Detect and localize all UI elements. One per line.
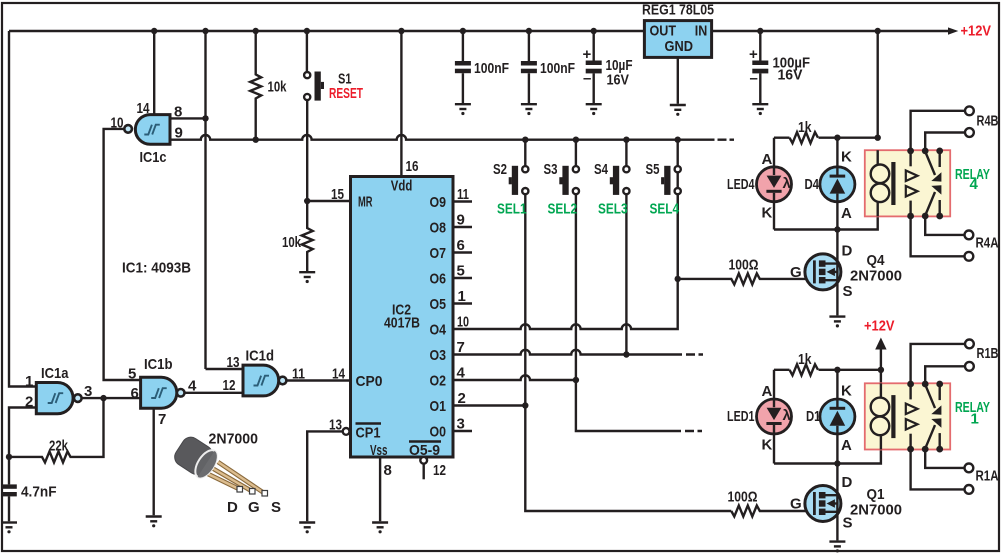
nand gate IC1b xyxy=(141,377,177,408)
svg-text:O4: O4 xyxy=(430,322,447,339)
wire relay1 COM to R1A top xyxy=(925,449,964,468)
wire O1 to S2 line xyxy=(453,404,525,406)
svg-text:Vss: Vss xyxy=(370,442,388,459)
svg-text:K: K xyxy=(841,149,852,166)
wire Vdd pin 16 xyxy=(400,31,402,177)
svg-text:2N7000: 2N7000 xyxy=(850,502,902,519)
svg-text:R4B: R4B xyxy=(977,113,999,130)
svg-text:D: D xyxy=(842,243,853,260)
wire LED1/D1 cathode rail to coil bottom xyxy=(774,436,881,464)
svg-text:K: K xyxy=(762,205,773,222)
node rail-C1 xyxy=(460,28,466,34)
pin stub O5 xyxy=(453,302,472,304)
svg-text:G: G xyxy=(790,264,802,281)
svg-text:S: S xyxy=(843,283,853,300)
svg-text:14: 14 xyxy=(332,366,346,383)
svg-text:IC1d: IC1d xyxy=(246,348,275,365)
node O4 line 100R branch xyxy=(675,276,681,282)
svg-text:Vdd: Vdd xyxy=(391,178,413,195)
terminal circle R1A-2 xyxy=(965,485,974,494)
wire IC1b pin 4 to IC1d pin 12 xyxy=(185,392,244,394)
node D1 top xyxy=(834,367,840,373)
node rail-Vdd xyxy=(398,28,404,34)
transistor package 2N7000 drawing xyxy=(171,434,267,496)
ground Q1 source xyxy=(829,542,845,553)
diode D1 xyxy=(820,399,855,434)
node O2-S3 xyxy=(573,377,579,383)
wire relay4 NO to R4B top xyxy=(911,111,965,151)
svg-text:SEL3: SEL3 xyxy=(598,201,628,218)
svg-text:12: 12 xyxy=(433,462,446,479)
wire O3 dashed continuation xyxy=(686,353,703,355)
relay RELAY4 coil xyxy=(877,150,879,165)
wire IC1c pin 14 xyxy=(153,31,155,115)
svg-text:SEL4: SEL4 xyxy=(650,201,680,218)
svg-text:CP0: CP0 xyxy=(356,373,383,390)
wire S4 vertical xyxy=(625,194,627,354)
svg-text:16V: 16V xyxy=(607,72,630,89)
+12V arrowhead relay1 xyxy=(875,338,886,350)
pin stub O7 xyxy=(453,251,472,253)
svg-text:7: 7 xyxy=(158,411,166,428)
wire pin8 vertical rail to IC1d pin13 xyxy=(206,31,244,369)
resistor 1k (relay4) xyxy=(790,132,819,143)
LED LED4 xyxy=(757,167,792,202)
svg-text:REG1 78L05: REG1 78L05 xyxy=(642,2,714,19)
LED LED1 xyxy=(757,399,792,434)
svg-text:A: A xyxy=(841,437,852,454)
node rail-IC1c pin14 xyxy=(151,28,157,34)
svg-text:5: 5 xyxy=(457,263,465,280)
svg-text:O8: O8 xyxy=(430,220,447,237)
nand gate IC1d xyxy=(243,365,279,396)
wire relay1 NO to R1A bottom xyxy=(911,449,965,489)
wire 1k/D4/coil top link xyxy=(774,138,878,167)
svg-text:O7: O7 xyxy=(430,245,447,262)
svg-text:16: 16 xyxy=(406,158,419,175)
ground Q4 source xyxy=(829,317,845,328)
svg-text:A: A xyxy=(762,383,773,400)
ground C4 xyxy=(752,104,768,115)
node MR junction xyxy=(304,198,310,204)
wire left +12V drop to IC1a pin 1 xyxy=(9,31,36,387)
ground IC1b pin7 xyxy=(146,517,162,528)
wire relay1 coil top feed xyxy=(880,370,882,398)
svg-text:IC1: 4093B: IC1: 4093B xyxy=(122,260,191,277)
wire IC1a pin 3 to IC1b pin 6 xyxy=(82,397,141,399)
svg-text:100nF: 100nF xyxy=(540,60,575,77)
switch S4 xyxy=(625,140,627,166)
svg-text:IC1c: IC1c xyxy=(140,149,167,166)
svg-text:O3: O3 xyxy=(430,347,447,364)
wire +12V feed to relay 4 xyxy=(877,31,879,138)
wire Vss to ground xyxy=(379,457,381,521)
svg-text:O0: O0 xyxy=(430,424,447,441)
pin stub O9 xyxy=(453,200,472,202)
diode D4 xyxy=(820,167,855,202)
bubble IC1a pin 3 xyxy=(74,394,82,402)
wire IC1c pin 8 xyxy=(170,117,206,119)
svg-text:IN: IN xyxy=(695,23,708,40)
wire S3 vertical and branch to relay2 xyxy=(576,194,681,431)
wire S2 vertical down to Q1 gate resistor xyxy=(525,194,731,511)
svg-text:O9: O9 xyxy=(430,194,447,211)
wire select bus (IC1c pin 9) with hops xyxy=(170,135,715,140)
svg-text:MR: MR xyxy=(358,194,373,211)
wire O4 to S5 line with hops xyxy=(453,169,678,329)
wire 1k/D1/coil top link xyxy=(774,370,881,399)
nand gate IC1c xyxy=(135,115,170,145)
nand gate IC1a xyxy=(36,383,73,414)
svg-text:SEL1: SEL1 xyxy=(497,201,527,218)
pin O5-9 bubble and stub xyxy=(420,457,427,464)
svg-text:–: – xyxy=(583,70,591,87)
wire +12V top rail xyxy=(9,30,948,32)
ground 4.7nF xyxy=(1,523,17,534)
switch S1 xyxy=(306,31,308,72)
ground REG1 xyxy=(670,105,686,116)
node bus-S4 xyxy=(623,137,629,143)
ground C3 xyxy=(586,104,602,115)
resistor 10k (top) xyxy=(250,31,261,140)
svg-text:GND: GND xyxy=(665,38,694,55)
wire relay2 dashed continuation xyxy=(685,430,702,432)
regulator REG1 78L05 xyxy=(644,21,711,58)
svg-text:S4: S4 xyxy=(594,161,608,178)
wire IC1c pin 10 to IC1b pin 5 xyxy=(104,129,141,380)
node bus-S3 xyxy=(573,137,579,143)
svg-text:K: K xyxy=(762,437,773,454)
svg-text:15: 15 xyxy=(331,186,344,203)
wire relay4 COM to R4B bottom xyxy=(925,133,965,151)
resistor 100R (Q1 gate) xyxy=(731,506,814,517)
svg-text:D4: D4 xyxy=(805,176,820,193)
terminal circle R1B-2 xyxy=(965,362,974,371)
capacitor C3 10uF xyxy=(593,31,595,61)
node O3-S4 xyxy=(623,351,629,357)
node rail-C2 xyxy=(526,28,532,34)
svg-text:100Ω: 100Ω xyxy=(728,489,758,506)
svg-text:G: G xyxy=(790,496,802,513)
node rail-10k xyxy=(253,28,259,34)
bubble IC1b pin 4 xyxy=(177,389,185,397)
ground MR 10k xyxy=(299,272,315,283)
svg-text:S: S xyxy=(271,499,281,516)
svg-text:12: 12 xyxy=(223,377,236,394)
svg-text:A: A xyxy=(762,151,773,168)
svg-text:S5: S5 xyxy=(646,161,660,178)
svg-text:R4A: R4A xyxy=(976,235,999,252)
node bus-S2 xyxy=(522,137,528,143)
transistor Q1 2N7000 xyxy=(805,486,841,522)
svg-text:100nF: 100nF xyxy=(474,60,509,77)
svg-text:10k: 10k xyxy=(268,79,287,96)
svg-text:4: 4 xyxy=(970,176,979,193)
wire relay4 NO to R4A bottom xyxy=(911,216,965,256)
svg-text:LED1: LED1 xyxy=(727,408,755,425)
svg-text:+: + xyxy=(583,46,592,63)
wire Q4 gate with 100R xyxy=(678,273,815,284)
svg-text:13: 13 xyxy=(227,354,240,371)
svg-text:11: 11 xyxy=(457,186,469,203)
svg-text:100Ω: 100Ω xyxy=(729,257,759,274)
node coil top feed xyxy=(875,135,881,141)
svg-text:D1: D1 xyxy=(806,408,821,425)
svg-text:O2: O2 xyxy=(430,373,447,390)
svg-text:R1B: R1B xyxy=(977,345,999,362)
switch S3 xyxy=(575,140,577,166)
svg-text:6: 6 xyxy=(457,237,465,254)
svg-text:1k: 1k xyxy=(798,351,812,368)
ground Vss xyxy=(372,523,388,534)
svg-text:λ: λ xyxy=(783,175,792,192)
svg-text:O1: O1 xyxy=(430,398,447,415)
relay RELAY4 box xyxy=(865,150,950,216)
svg-text:8: 8 xyxy=(384,462,392,479)
wire IC1a pin 2 to RC node xyxy=(9,408,36,457)
svg-text:LED4: LED4 xyxy=(727,176,755,193)
svg-text:1: 1 xyxy=(458,288,466,305)
relay RELAY4 contacts xyxy=(907,148,914,155)
wire LED4/D4 cathode rail to coil bottom xyxy=(774,203,878,230)
pin stub O8 xyxy=(453,226,472,228)
node bus-S5 xyxy=(675,137,681,143)
svg-text:D: D xyxy=(227,499,238,516)
svg-text:16V: 16V xyxy=(778,67,803,84)
svg-text:CP1: CP1 xyxy=(356,425,381,442)
terminal circle R4B-2 xyxy=(965,128,974,137)
wire S1 bottom to MR node xyxy=(306,100,308,201)
svg-text:SEL2: SEL2 xyxy=(548,201,578,218)
svg-text:A: A xyxy=(841,205,852,222)
svg-text:6: 6 xyxy=(131,385,139,402)
ground CP1 xyxy=(299,523,315,534)
wire IC1d pin 11 to CP0 xyxy=(286,379,350,381)
bubble IC1c output pin 10 xyxy=(124,125,132,133)
svg-text:2N7000: 2N7000 xyxy=(209,431,259,448)
node pin8 junction xyxy=(202,115,208,121)
svg-text:1k: 1k xyxy=(798,119,812,136)
pin stub O6 xyxy=(453,277,472,279)
svg-text:K: K xyxy=(841,383,852,400)
svg-text:Q4: Q4 xyxy=(867,252,886,269)
svg-text:D: D xyxy=(842,474,853,491)
capacitor C4 100uF xyxy=(759,31,761,61)
switch S2 xyxy=(524,140,526,166)
wire +12V arrow to coil feed xyxy=(880,348,882,370)
wire MR pin 15 xyxy=(307,200,350,202)
capacitor C1 100nF xyxy=(462,31,464,61)
node pin3-22k junction xyxy=(100,395,106,401)
svg-text:IC1b: IC1b xyxy=(144,356,173,373)
resistor 22k xyxy=(9,398,104,462)
wire REG1 GND pin xyxy=(677,57,679,103)
relay RELAY1 coil xyxy=(880,383,882,398)
svg-text:G: G xyxy=(248,499,260,516)
terminal circle R4B-1 xyxy=(965,106,974,115)
svg-text:2: 2 xyxy=(25,394,33,411)
svg-text:13: 13 xyxy=(329,417,342,434)
relay RELAY1 box xyxy=(865,383,950,449)
resistor 10k (MR pulldown) xyxy=(302,201,313,271)
svg-text:14: 14 xyxy=(137,100,151,117)
ground C1 xyxy=(455,104,471,115)
svg-text:+12V: +12V xyxy=(864,318,895,335)
node rail-C3 xyxy=(591,28,597,34)
svg-text:+: + xyxy=(749,46,758,63)
pin stub O0 xyxy=(453,430,472,432)
bubble IC1d pin 11 xyxy=(279,377,287,385)
relay RELAY1 contacts xyxy=(907,381,914,388)
svg-text:–: – xyxy=(750,70,758,87)
node RC junction xyxy=(6,454,12,460)
svg-text:4017B: 4017B xyxy=(384,315,420,332)
svg-text:22k: 22k xyxy=(49,438,68,455)
bubble CP1 xyxy=(343,428,350,435)
terminal circle R1A-1 xyxy=(965,464,974,473)
svg-text:Q1: Q1 xyxy=(867,486,885,503)
svg-text:9: 9 xyxy=(457,212,465,229)
wire select bus dashed continuation xyxy=(718,138,735,140)
ground C2 xyxy=(521,104,537,115)
svg-text:R1A: R1A xyxy=(976,468,999,485)
terminal circle R1B-1 xyxy=(965,340,974,349)
node rail-S1 xyxy=(304,28,310,34)
svg-text:O6: O6 xyxy=(430,271,447,288)
node bus-10k xyxy=(253,137,259,143)
svg-text:IC1a: IC1a xyxy=(41,365,69,382)
resistor 1k (relay1) xyxy=(790,364,819,375)
terminal circle R4A-1 xyxy=(965,231,974,240)
svg-text:10k: 10k xyxy=(282,234,301,251)
wire CP1 to ground xyxy=(307,431,343,521)
capacitor C2 100nF xyxy=(528,31,530,61)
svg-text:+12V: +12V xyxy=(961,23,992,40)
svg-text:1: 1 xyxy=(25,373,33,390)
svg-text:OUT: OUT xyxy=(650,23,677,40)
svg-text:5: 5 xyxy=(128,366,136,383)
node rail-pin8 vertical xyxy=(202,28,208,34)
svg-text:S2: S2 xyxy=(493,161,507,178)
wire O2 to S3 line with hop xyxy=(453,375,576,380)
wire O3 to S4 line with hops xyxy=(453,350,682,355)
node D4 top xyxy=(834,135,840,141)
capacitor 4.7nF xyxy=(8,457,10,485)
wire IC1b pin 7 to ground xyxy=(152,408,154,515)
wire S5 vertical upper xyxy=(677,194,679,279)
switch S5 xyxy=(677,140,679,166)
svg-text:1: 1 xyxy=(971,411,979,428)
svg-text:λ: λ xyxy=(783,407,792,424)
wire relay1 NO to R1B top xyxy=(911,344,965,384)
node Q1 drain xyxy=(834,460,840,466)
node relay1 feed xyxy=(878,367,884,373)
svg-text:RESET: RESET xyxy=(329,85,363,102)
node O1-S2 xyxy=(522,402,528,408)
svg-text:4.7nF: 4.7nF xyxy=(21,484,57,501)
node rail-C4 xyxy=(757,28,763,34)
wire relay1 COM to R1B bottom xyxy=(925,366,965,384)
wire relay4 COM to R4A top xyxy=(925,216,964,235)
+12V arrowhead top right xyxy=(948,27,958,34)
svg-text:S3: S3 xyxy=(544,161,558,178)
svg-text:O5: O5 xyxy=(430,296,447,313)
IC2 4017B body xyxy=(351,177,454,458)
transistor Q4 2N7000 xyxy=(805,254,841,290)
node Q4 drain xyxy=(834,226,840,232)
terminal circle R4A-2 xyxy=(965,252,974,261)
svg-text:2N7000: 2N7000 xyxy=(850,268,902,285)
node rail-relay4 feed xyxy=(875,28,881,34)
